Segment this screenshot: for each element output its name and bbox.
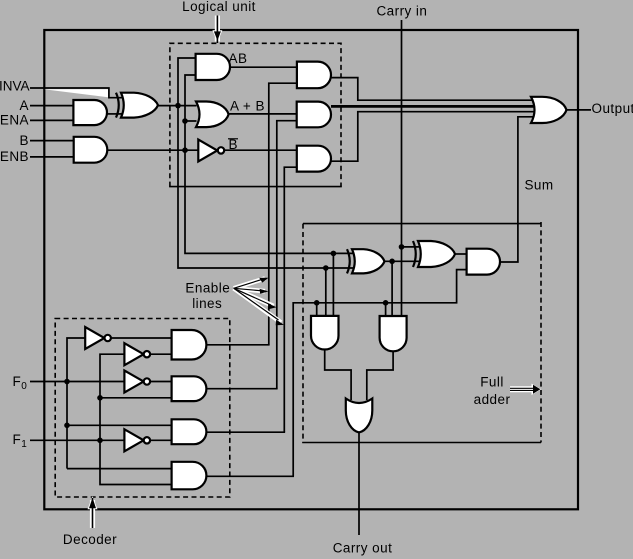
gate XOR input: [116, 93, 119, 118]
svg-text:Sum: Sum: [524, 177, 553, 192]
wire F0 to AND3: [67, 424, 172, 426]
gate OR_AB: [196, 101, 229, 127]
wire enable line 4: [293, 270, 466, 477]
wire inv1 out: [110, 337, 171, 339]
wire inv2 out: [150, 353, 171, 355]
node F1: [97, 438, 103, 444]
svg-text:A + B: A + B: [230, 99, 265, 114]
wire enable line 2: [277, 121, 297, 389]
node F1-AND2: [97, 395, 103, 401]
wire A down branch to XOR1: [178, 106, 354, 268]
gate AND_A (A ENA): [73, 100, 107, 125]
wire AND left out to OR carry: [325, 349, 351, 400]
wire OR_OUT output: [567, 109, 592, 111]
wire inv4 out: [150, 439, 171, 441]
gate XOR2: [413, 241, 416, 267]
wire F0 up branch to inv1: [67, 338, 85, 382]
gate inv3: [124, 371, 143, 393]
wire enable line 1: [269, 83, 297, 345]
wire AND_A out to XOR: [107, 113, 123, 115]
wire A up branch to AND_AB: [178, 58, 196, 106]
svg-text:Output: Output: [592, 101, 633, 116]
wire AND right out to OR carry: [367, 351, 393, 400]
node e4-left: [314, 300, 320, 306]
svg-text:Carry out: Carry out: [333, 541, 393, 556]
decoder dashed box: [55, 319, 230, 498]
wire AND1 decoder out: [206, 344, 269, 346]
node carryin: [399, 244, 405, 250]
node F0: [64, 379, 70, 385]
wire AND2 decoder out: [206, 388, 277, 390]
gate XOR1: [347, 249, 350, 273]
gate AND_B (B ENB): [74, 137, 108, 163]
wire branch B to AND left: [325, 268, 327, 317]
outer ALU box: [44, 30, 578, 509]
wire AND_top out to bus top: [331, 78, 534, 101]
wire ENA input: [30, 119, 73, 121]
wire XOR1 branch to AND right: [391, 261, 393, 317]
gate AND_AB: [196, 54, 230, 80]
svg-text:adder: adder: [474, 392, 511, 407]
gate AND_FA: [467, 249, 500, 275]
svg-text:B: B: [20, 133, 29, 148]
wire F1 up branch to inv2: [100, 354, 125, 440]
wire F1 to AND2: [100, 397, 172, 399]
wire AND3 decoder out: [206, 431, 285, 433]
wire F1 down branch to AND4: [100, 440, 172, 484]
gate AND_top: [297, 62, 331, 89]
wire INVA: [30, 88, 123, 98]
gate AND carry right (vertical): [380, 316, 407, 351]
node xor1out: [389, 259, 395, 265]
wire carry in: [401, 20, 403, 317]
svg-text:lines: lines: [192, 296, 222, 311]
node F0-AND3: [64, 423, 70, 429]
wire AND4 decoder out: [206, 475, 294, 477]
node e4-right: [383, 300, 389, 306]
arrow logical unit: [212, 16, 222, 44]
gate inv2: [124, 343, 143, 365]
wire A line XOR out to OR: [158, 105, 197, 107]
svg-text:AB: AB: [229, 51, 248, 66]
gate AND3 decoder: [172, 419, 207, 444]
arrow full adder: [510, 384, 541, 395]
gate AND1 decoder: [172, 330, 207, 360]
svg-text:Carry in: Carry in: [376, 4, 427, 19]
node B line: [182, 147, 188, 153]
full adder dashed box: [302, 222, 541, 443]
svg-text:INVA: INVA: [0, 79, 30, 94]
wire branch A to AND left: [332, 253, 334, 317]
node A line: [175, 103, 181, 109]
node A-XOR1: [323, 265, 329, 271]
arrow decoder: [88, 496, 98, 528]
gate OR carry out (vertical): [346, 399, 373, 433]
INVA white wedge artifact: [44, 89, 108, 97]
svg-text:A: A: [20, 98, 29, 113]
wire AB out: [230, 66, 297, 68]
wire F0 down branch: [66, 382, 68, 469]
wire B up branch to AND_AB: [185, 75, 196, 150]
svg-text:ENB: ENB: [0, 149, 29, 164]
wire AND_bot out to bus bottom: [331, 112, 534, 162]
wire A+B out: [229, 113, 297, 115]
gate NOT_B: [198, 140, 217, 162]
wire branch e4 to AND right: [385, 303, 387, 317]
gate inv1: [85, 327, 104, 349]
wire B down branch to XOR1: [185, 150, 354, 253]
gate inv4: [124, 429, 143, 451]
wire B line to NOT: [107, 149, 199, 151]
node B to OR: [182, 118, 188, 124]
wire F1 input: [30, 439, 125, 441]
gate AND carry left (vertical): [311, 316, 339, 350]
svg-text:Full: Full: [480, 375, 504, 390]
wire XOR1 out to XOR2: [385, 260, 421, 262]
wire AND_mid out bus middle: [331, 105, 534, 108]
svg-text:Decoder: Decoder: [63, 532, 117, 547]
svg-text:ENA: ENA: [0, 113, 29, 128]
svg-text:Logical unit: Logical unit: [182, 0, 256, 14]
wire enable line 3: [284, 167, 297, 432]
wire NOT out Bbar: [224, 149, 297, 151]
wire branch e4 to AND left: [316, 303, 318, 317]
wire sum from AND_FA to OR_OUT: [500, 117, 534, 262]
wire carry in to XOR2: [402, 246, 421, 248]
gate AND2 decoder: [172, 376, 207, 401]
node B-XOR1: [331, 251, 337, 257]
gate AND_mid: [297, 102, 331, 128]
gate OR_OUT: [531, 97, 567, 123]
enable lines arrows: [234, 278, 284, 326]
gate AND_bot: [297, 146, 331, 172]
wire B branch to OR: [185, 120, 197, 122]
logical unit dashed box: [169, 43, 342, 186]
wire ENB input: [30, 156, 74, 158]
wire inv3 out: [150, 381, 171, 383]
wire B input: [30, 140, 74, 142]
wire carry out: [358, 432, 360, 535]
wire A input: [30, 105, 73, 107]
wire F0 to AND4: [67, 468, 172, 470]
svg-text:Enable: Enable: [185, 281, 230, 296]
wire F0 input: [30, 381, 125, 383]
gate AND4 decoder: [172, 462, 207, 490]
wire XOR2 out to AND_FA: [455, 253, 467, 255]
